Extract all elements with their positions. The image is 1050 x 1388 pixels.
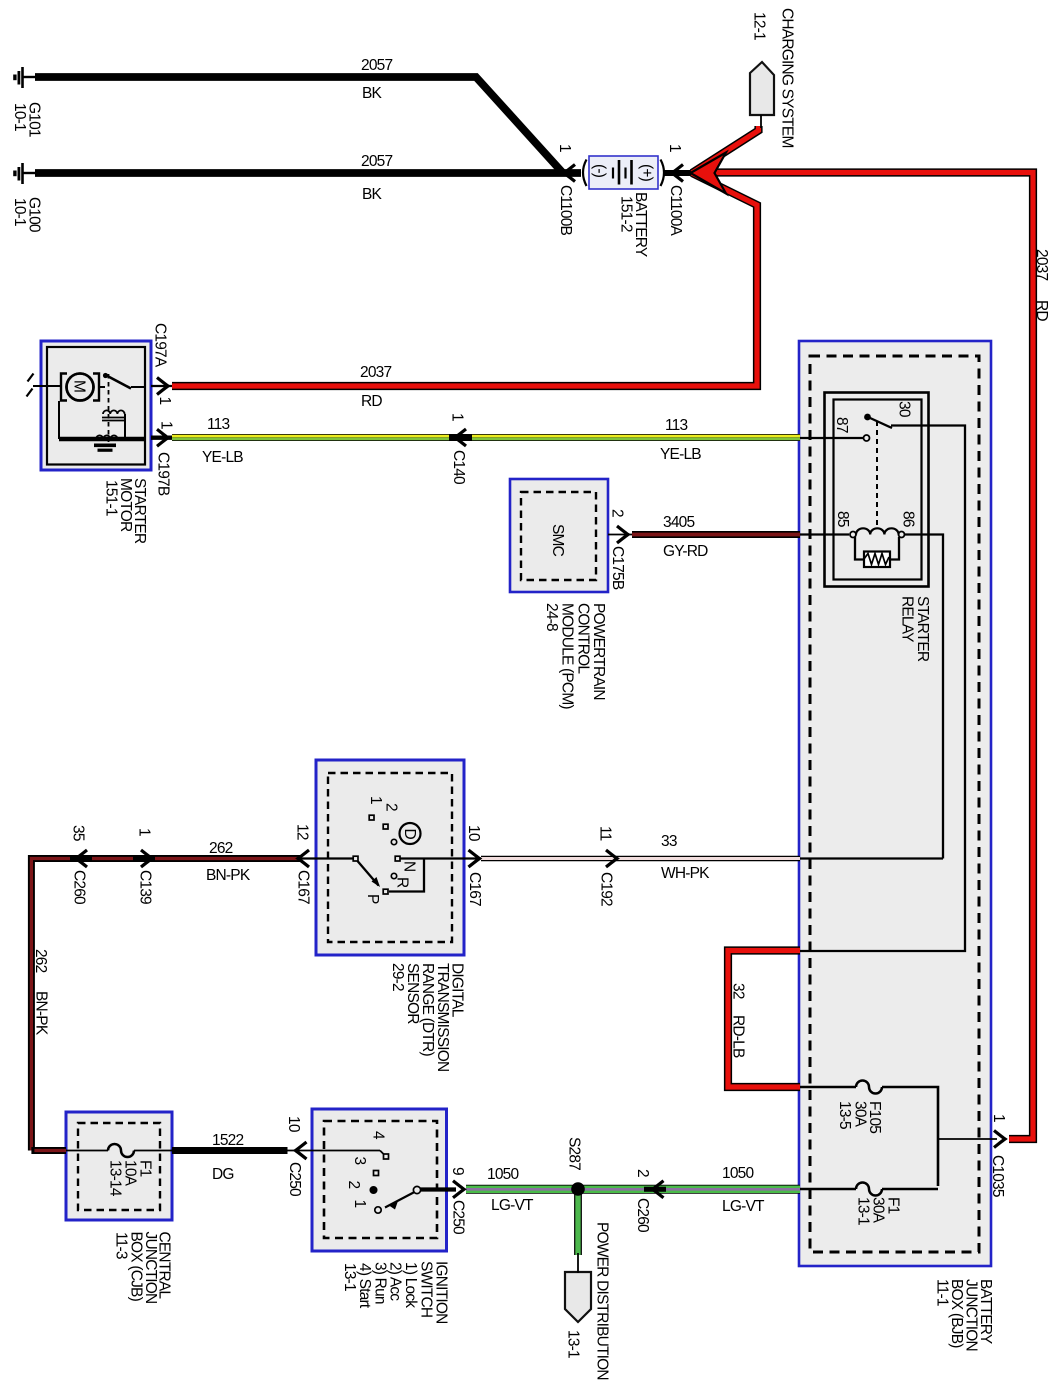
svg-text:85: 85 (834, 511, 851, 527)
svg-text:13-1: 13-1 (565, 1330, 582, 1358)
svg-text:RELAY: RELAY (899, 596, 916, 642)
svg-text:1: 1 (156, 397, 173, 405)
svg-text:2057: 2057 (361, 153, 392, 170)
svg-text:10: 10 (285, 1116, 302, 1133)
svg-text:C1035: C1035 (989, 1155, 1006, 1197)
svg-text:4: 4 (370, 1131, 387, 1140)
svg-text:C250: C250 (450, 1200, 467, 1235)
svg-text:12: 12 (294, 824, 311, 840)
svg-text:D: D (401, 829, 418, 840)
svg-text:BN-PK: BN-PK (206, 867, 251, 884)
svg-text:RD-LB: RD-LB (730, 1015, 747, 1058)
svg-text:C260: C260 (634, 1198, 651, 1233)
svg-text:10-1: 10-1 (11, 103, 28, 131)
svg-text:RD: RD (1033, 300, 1050, 321)
svg-text:10: 10 (465, 825, 482, 842)
svg-text:1: 1 (136, 828, 153, 836)
svg-text:STARTER: STARTER (914, 596, 931, 662)
svg-text:30: 30 (896, 401, 913, 418)
svg-text:1: 1 (666, 144, 683, 152)
svg-text:1050: 1050 (487, 1166, 519, 1183)
svg-text:11-3: 11-3 (112, 1232, 129, 1259)
svg-text:32: 32 (730, 983, 747, 999)
svg-text:CONTROL: CONTROL (575, 603, 592, 674)
svg-text:2: 2 (634, 1169, 651, 1177)
svg-text:11-1: 11-1 (934, 1279, 951, 1306)
svg-text:C260: C260 (71, 870, 88, 905)
svg-text:10-1: 10-1 (11, 198, 28, 226)
svg-text:N: N (401, 861, 418, 871)
svg-text:SMC: SMC (549, 524, 566, 557)
svg-text:2: 2 (609, 509, 626, 517)
svg-text:1: 1 (449, 413, 466, 421)
svg-text:87: 87 (833, 417, 850, 433)
svg-text:1: 1 (556, 144, 573, 152)
svg-text:24-8: 24-8 (543, 603, 560, 631)
svg-text:1050: 1050 (722, 1165, 754, 1182)
svg-text:S287: S287 (566, 1137, 583, 1170)
svg-text:35: 35 (70, 825, 87, 841)
svg-text:POWER DISTRIBUTION: POWER DISTRIBUTION (594, 1222, 611, 1380)
svg-text:C167: C167 (466, 872, 483, 906)
svg-text:1: 1 (990, 1114, 1007, 1122)
svg-text:11: 11 (597, 826, 614, 841)
svg-text:2037: 2037 (360, 364, 391, 381)
svg-text:262: 262 (32, 949, 49, 973)
svg-text:CHARGING SYSTEM: CHARGING SYSTEM (779, 8, 796, 148)
svg-text:C140: C140 (450, 450, 467, 485)
svg-text:13-14: 13-14 (107, 1160, 124, 1197)
svg-text:2037: 2037 (1033, 249, 1050, 280)
svg-text:POWERTRAIN: POWERTRAIN (590, 603, 607, 700)
svg-text:C175B: C175B (609, 546, 626, 590)
svg-text:C197B: C197B (155, 452, 172, 496)
svg-text:C250: C250 (286, 1162, 303, 1197)
svg-text:12-1: 12-1 (751, 12, 768, 40)
svg-text:LG-VT: LG-VT (722, 1198, 765, 1215)
svg-text:13-1: 13-1 (341, 1263, 358, 1291)
svg-text:M: M (71, 380, 88, 392)
svg-text:2057: 2057 (361, 57, 392, 74)
svg-text:BK: BK (362, 85, 383, 102)
svg-text:1: 1 (367, 796, 384, 804)
svg-text:33: 33 (661, 833, 677, 850)
svg-text:9: 9 (449, 1167, 466, 1175)
svg-text:DG: DG (212, 1166, 234, 1183)
svg-text:86: 86 (900, 511, 917, 527)
svg-text:2: 2 (345, 1181, 362, 1189)
svg-text:C139: C139 (137, 870, 154, 904)
svg-text:C167: C167 (295, 870, 312, 904)
svg-text:151-1: 151-1 (103, 480, 120, 516)
svg-text:RD: RD (361, 393, 382, 410)
svg-text:WH-PK: WH-PK (661, 865, 710, 882)
svg-text:GY-RD: GY-RD (663, 543, 708, 560)
svg-text:113: 113 (207, 416, 229, 433)
svg-text:1522: 1522 (212, 1132, 243, 1149)
svg-text:LG-VT: LG-VT (491, 1197, 534, 1214)
svg-text:BK: BK (362, 186, 383, 203)
svg-text:C1100A: C1100A (667, 185, 684, 237)
svg-text:3405: 3405 (663, 514, 694, 531)
svg-text:BN-PK: BN-PK (33, 991, 50, 1036)
svg-text:C1100B: C1100B (557, 185, 574, 236)
svg-text:29-2: 29-2 (389, 963, 406, 991)
svg-text:13-5: 13-5 (836, 1101, 853, 1129)
svg-text:113: 113 (665, 417, 687, 434)
svg-text:R: R (394, 877, 411, 888)
svg-text:C197A: C197A (152, 323, 169, 368)
svg-text:P: P (364, 894, 381, 904)
svg-text:MODULE (PCM): MODULE (PCM) (559, 603, 576, 709)
svg-text:30A: 30A (852, 1101, 869, 1128)
svg-text:1: 1 (351, 1200, 368, 1208)
svg-text:2: 2 (383, 803, 400, 811)
svg-text:(-): (-) (591, 164, 608, 178)
svg-text:C192: C192 (598, 872, 615, 906)
svg-text:3: 3 (351, 1157, 368, 1165)
svg-text:262: 262 (209, 840, 233, 857)
svg-text:13-1: 13-1 (855, 1197, 872, 1225)
svg-text:151-2: 151-2 (618, 196, 635, 232)
svg-text:(+): (+) (638, 164, 655, 182)
svg-text:1: 1 (158, 421, 175, 429)
svg-text:YE-LB: YE-LB (660, 446, 701, 463)
svg-text:YE-LB: YE-LB (202, 449, 243, 466)
